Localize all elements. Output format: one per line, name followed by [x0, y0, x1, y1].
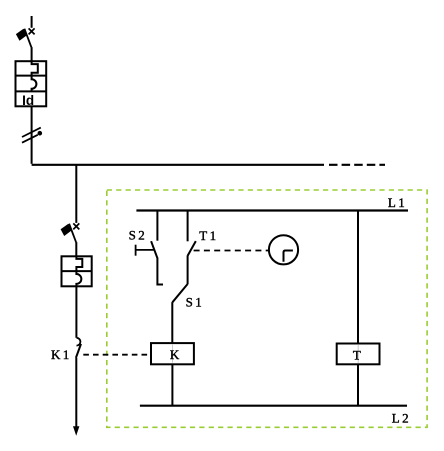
- svg-text:K1: K1: [51, 347, 72, 362]
- svg-text:K: K: [170, 347, 182, 362]
- svg-text:L2: L2: [392, 410, 411, 425]
- svg-text:S1: S1: [186, 295, 205, 310]
- svg-text:T: T: [353, 348, 363, 363]
- svg-text:L1: L1: [388, 195, 407, 210]
- svg-text:Id: Id: [22, 93, 34, 108]
- svg-text:T1: T1: [199, 228, 218, 243]
- svg-text:S2: S2: [129, 227, 148, 242]
